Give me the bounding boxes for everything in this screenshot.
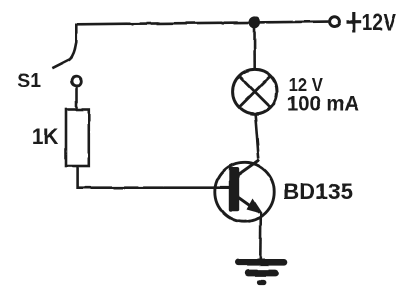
wire emitter to ground — [259, 213, 262, 259]
wire lamp to collector — [255, 114, 259, 159]
wire rail to lamp — [253, 27, 256, 70]
terminal +12V — [330, 17, 340, 27]
wire top supply rail — [77, 22, 328, 25]
svg-text:12V: 12V — [362, 9, 397, 35]
resistor R1 — [66, 110, 89, 167]
lamp LP1 — [233, 69, 277, 113]
label 12V 100mA — [287, 75, 359, 115]
label +12V — [347, 9, 397, 35]
wire resistor to base — [78, 166, 229, 188]
svg-text:100 mA: 100 mA — [287, 92, 359, 115]
ground — [238, 262, 284, 282]
wire switch to resistor — [75, 87, 78, 110]
switch S1 contact — [72, 76, 82, 86]
wire switch top drop — [75, 24, 78, 43]
switch S1 blade — [52, 43, 76, 69]
node junction collector rail — [249, 16, 261, 28]
svg-text:S1: S1 — [17, 70, 41, 92]
transistor Q1 BD135 — [215, 160, 274, 222]
svg-text:1K: 1K — [32, 124, 59, 149]
svg-text:BD135: BD135 — [283, 179, 353, 204]
